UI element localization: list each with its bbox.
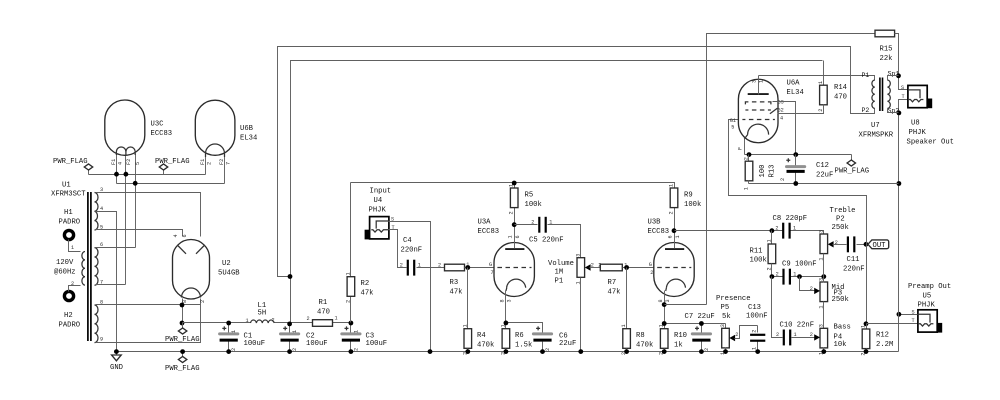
wire U6B F1 stub [205, 157, 207, 175]
svg-text:Volume: Volume [548, 260, 574, 268]
svg-text:U3C: U3C [151, 121, 165, 129]
svg-text:ECC83: ECC83 [151, 130, 173, 138]
svg-text:GND: GND [110, 364, 123, 372]
junction ground rail / R12 [864, 349, 869, 354]
svg-text:PWR_FLAG: PWR_FLAG [155, 158, 190, 166]
wire cathode return to ground vertical [749, 183, 899, 185]
capacitor C11 220nF [843, 236, 865, 273]
junction B+ / C1 [226, 321, 231, 326]
svg-text:G3: G3 [778, 100, 784, 106]
capacitor C2 100uF [281, 324, 328, 352]
svg-text:2: 2 [207, 162, 213, 165]
svg-text:R8: R8 [636, 332, 645, 340]
svg-text:EL34: EL34 [240, 135, 257, 143]
svg-text:8: 8 [500, 299, 506, 302]
svg-text:C13: C13 [748, 304, 761, 312]
svg-text:1: 1 [766, 239, 772, 242]
junction heater A / U3C pin4 [114, 172, 119, 177]
svg-text:T: T [912, 318, 915, 324]
svg-text:H2: H2 [64, 312, 73, 320]
svg-text:Presence: Presence [716, 295, 751, 303]
junction cathode / C6 branch [504, 321, 509, 326]
svg-text:PHJK: PHJK [918, 302, 936, 310]
svg-text:8: 8 [658, 299, 664, 302]
junction ground rail / PWR_FLAG [180, 349, 185, 354]
capacitor C9 100nF [776, 260, 817, 284]
tube U6A EL34 pentode [730, 76, 804, 155]
junction C7 top [699, 321, 704, 326]
junction R11 / C9 [770, 274, 775, 279]
svg-text:PWR_FLAG: PWR_FLAG [165, 336, 200, 344]
svg-text:1k: 1k [674, 342, 683, 350]
svg-text:@60Hz: @60Hz [54, 269, 76, 277]
svg-text:P1: P1 [862, 72, 870, 79]
svg-text:F2: F2 [219, 159, 225, 165]
junction screen loop / C2 vertical [288, 274, 293, 279]
svg-text:2: 2 [71, 281, 74, 287]
svg-text:1: 1 [861, 325, 867, 328]
svg-text:5: 5 [135, 162, 141, 165]
svg-text:T: T [392, 225, 395, 231]
svg-text:Treble: Treble [830, 207, 856, 215]
svg-text:Speaker Out: Speaker Out [907, 139, 954, 147]
svg-text:1: 1 [71, 245, 74, 251]
svg-text:7: 7 [491, 270, 494, 276]
junction P2 bottom / P3 top [821, 274, 826, 279]
svg-text:250k: 250k [832, 296, 849, 304]
wire U3C pin9 stub down to xfmr pin7 [125, 155, 127, 285]
svg-text:R12: R12 [876, 332, 889, 340]
junction ground rail / P5 [723, 349, 728, 354]
primary winding [82, 252, 85, 286]
wire G3 to cathode node [773, 102, 796, 155]
svg-text:8: 8 [182, 300, 188, 303]
svg-text:C12: C12 [816, 162, 829, 170]
svg-text:R3: R3 [450, 279, 459, 287]
svg-text:2: 2 [354, 348, 360, 351]
wire U6B F2 stub [224, 157, 226, 184]
svg-text:3: 3 [665, 299, 671, 302]
svg-text:U6A: U6A [787, 80, 801, 88]
resistor R2 47k [346, 183, 374, 323]
resistor R10 1k [659, 305, 687, 356]
svg-text:470: 470 [834, 94, 847, 102]
svg-text:2: 2 [231, 348, 237, 351]
wire heater net A [89, 174, 206, 176]
power flag PWR_FLAG (heater left) [53, 158, 93, 175]
svg-text:3: 3 [752, 80, 758, 83]
svg-text:100k: 100k [750, 257, 767, 265]
junction cathode row / C12 / G3 [793, 152, 798, 157]
grid G2 diagonal pin [770, 108, 777, 114]
capacitor C5 220nF [529, 217, 564, 245]
pad H1 PADRO [59, 209, 81, 252]
svg-text:Bass: Bass [834, 324, 851, 332]
junction cathode row / R13 [747, 152, 752, 157]
wire U3C pin4 stub [116, 155, 118, 184]
resistor R15 22k [875, 30, 895, 63]
svg-text:R15: R15 [880, 46, 893, 54]
core [879, 78, 881, 112]
svg-text:1: 1 [231, 330, 237, 333]
svg-text:PWR_FLAG: PWR_FLAG [53, 158, 88, 166]
svg-text:G2: G2 [778, 108, 784, 114]
svg-text:C5 220nF: C5 220nF [529, 237, 564, 245]
tube U6B EL34 heater [195, 100, 257, 165]
svg-text:4: 4 [780, 115, 783, 121]
plate [665, 248, 684, 250]
svg-text:EL34: EL34 [787, 89, 804, 97]
svg-text:100nF: 100nF [746, 313, 768, 321]
wire U6A plate to U7 P1 [759, 76, 875, 81]
svg-text:220nF: 220nF [843, 266, 865, 274]
junction C8 / R11 [770, 228, 775, 233]
connector U4 PHJK input jack [365, 188, 395, 240]
wire U8 tip to ground [899, 100, 908, 352]
svg-text:2: 2 [744, 157, 750, 160]
resistor R1 470 [307, 299, 338, 326]
svg-text:120V: 120V [56, 259, 74, 267]
svg-text:2: 2 [810, 332, 813, 338]
wire B+ main rail [183, 322, 351, 324]
svg-text:P2: P2 [862, 107, 870, 114]
Sp2 wire [888, 109, 899, 113]
wire U3C pin5 stub down to xfmr pin6 [135, 155, 137, 248]
wire xfmr pin4 CT to ground [96, 212, 117, 352]
capacitor C1 100uF [220, 323, 265, 352]
svg-text:22uF: 22uF [559, 340, 576, 348]
svg-text:22uF: 22uF [816, 172, 833, 180]
svg-text:2: 2 [704, 348, 710, 351]
svg-text:1.5k: 1.5k [515, 342, 532, 350]
svg-text:220nF: 220nF [401, 247, 423, 255]
svg-text:470: 470 [317, 309, 330, 317]
svg-text:3: 3 [507, 299, 513, 302]
svg-text:C8 220pF: C8 220pF [773, 215, 808, 223]
resistor R5 100k [509, 183, 542, 225]
svg-text:PHJK: PHJK [909, 129, 927, 137]
potentiometer P2 Treble 250k [818, 207, 855, 277]
svg-text:4: 4 [118, 162, 124, 165]
svg-text:2.2M: 2.2M [876, 341, 893, 349]
svg-text:C9 100nF: C9 100nF [782, 260, 817, 268]
junction B+ / C2 [287, 322, 292, 327]
wire U3B plate to C8 and P2 [675, 231, 824, 235]
transformer U7 XFRMSPKR [859, 71, 900, 140]
svg-text:2: 2 [766, 267, 772, 270]
potentiometer P1 Volume 1M [548, 254, 594, 352]
svg-text:1: 1 [818, 305, 824, 308]
wire cathode branch to C7/P5 [665, 323, 726, 325]
secondary winding 3-5 [95, 193, 99, 231]
svg-text:C7 22uF: C7 22uF [685, 313, 715, 321]
core [87, 192, 89, 341]
svg-text:Preamp Out: Preamp Out [908, 283, 951, 291]
svg-text:P5: P5 [721, 304, 730, 312]
svg-text:C4: C4 [403, 237, 412, 245]
svg-text:3: 3 [575, 254, 581, 257]
svg-text:U2: U2 [222, 260, 231, 268]
junction R3 / R4 / grid [465, 265, 470, 270]
junction ground rail / P1 [578, 349, 583, 354]
svg-text:ECC83: ECC83 [478, 228, 500, 236]
ground rail wire [117, 351, 899, 353]
power flag PWR_FLAG (heater mid) [155, 158, 190, 175]
resistor R14 470 [778, 61, 847, 114]
svg-text:S: S [901, 85, 904, 91]
junction R7 / R8 / grid U3B [624, 265, 629, 270]
svg-text:1: 1 [508, 235, 514, 238]
junction B+ / C3 / R2 [349, 321, 354, 326]
svg-text:1: 1 [793, 271, 796, 277]
resistor R6 1.5k [500, 303, 532, 356]
wire C4 to R3 [417, 267, 445, 269]
svg-text:P2: P2 [836, 216, 845, 224]
svg-text:22k: 22k [880, 55, 893, 63]
cathode [506, 279, 526, 291]
svg-text:1: 1 [669, 184, 675, 187]
junction ground rail / R10 [662, 349, 667, 354]
secondary winding 8-9 [95, 305, 99, 343]
wire U2 filament left to B+ takeoff [182, 299, 184, 323]
transformer U1 XFRM3SCT [51, 182, 103, 343]
capacitor C4 220nF [400, 237, 422, 276]
svg-text:2: 2 [650, 270, 653, 276]
svg-text:PWR_FLAG: PWR_FLAG [165, 365, 200, 373]
grid dashes [497, 267, 531, 269]
grid G3 dashes [745, 102, 771, 105]
svg-text:100uF: 100uF [306, 340, 328, 348]
svg-text:100k: 100k [684, 201, 701, 209]
svg-text:P1: P1 [555, 278, 564, 286]
svg-text:470k: 470k [636, 342, 653, 350]
svg-text:47k: 47k [608, 289, 621, 297]
resistor R3 47k [438, 262, 469, 297]
svg-text:100uF: 100uF [244, 340, 266, 348]
junction OUT node [864, 242, 869, 247]
wire R3 to U3A grid [465, 267, 497, 269]
svg-text:1: 1 [292, 330, 298, 333]
svg-text:2: 2 [780, 178, 786, 181]
svg-text:U3A: U3A [478, 219, 492, 227]
junction ground rail / GND [114, 349, 119, 354]
svg-text:2: 2 [598, 262, 601, 268]
svg-text:T: T [902, 94, 905, 100]
svg-text:XFRM3SCT: XFRM3SCT [51, 191, 86, 199]
cathode [666, 279, 686, 291]
wire xfmr pin8 to U2 filament [96, 304, 201, 306]
wire plate to C5 [515, 224, 538, 226]
svg-text:PADRO: PADRO [59, 219, 81, 227]
wire P1 wiper to R7 [590, 267, 601, 269]
svg-text:2: 2 [509, 211, 515, 214]
svg-text:10k: 10k [834, 341, 847, 349]
svg-text:1: 1 [354, 330, 360, 333]
secondary winding 6-7 [95, 248, 99, 286]
svg-text:100uF: 100uF [366, 340, 388, 348]
junction OUT vertical / R12 [864, 321, 869, 326]
junction ground rail / C1 [226, 349, 231, 354]
junction heater A / U3C pin9 [124, 172, 129, 177]
primary coil [872, 80, 875, 108]
capacitor C6 22uF [533, 326, 576, 351]
capacitor C13 100nF [746, 304, 768, 352]
potentiometer P4 Bass 10k [814, 324, 851, 356]
svg-text:1: 1 [462, 324, 468, 327]
net label OUT [868, 240, 889, 250]
svg-text:2: 2 [752, 330, 758, 333]
svg-text:2: 2 [735, 332, 738, 338]
svg-text:1: 1 [793, 225, 796, 231]
grid G1 dashes [742, 119, 775, 121]
plate [505, 248, 524, 250]
svg-text:PHJK: PHJK [369, 207, 387, 215]
resistor R11 100k [750, 231, 776, 277]
svg-text:2: 2 [775, 225, 778, 231]
svg-text:1: 1 [675, 235, 681, 238]
svg-text:H1: H1 [64, 209, 73, 217]
svg-text:6: 6 [515, 235, 521, 238]
tube U3A ECC83 triode [478, 219, 535, 303]
svg-text:100k: 100k [525, 201, 542, 209]
power flag PWR_FLAG (B+) [165, 323, 200, 345]
svg-text:2: 2 [438, 262, 441, 268]
svg-text:2: 2 [307, 316, 310, 322]
svg-text:XFRMSPKR: XFRMSPKR [859, 132, 894, 140]
svg-text:2: 2 [776, 332, 779, 338]
svg-text:1: 1 [346, 272, 352, 275]
resistor R4 470k [462, 324, 494, 355]
svg-text:2: 2 [835, 240, 838, 246]
capacitor C3 100uF [342, 323, 387, 352]
svg-text:F1: F1 [200, 159, 206, 165]
wire R7 to U3B grid [623, 267, 657, 269]
svg-text:2: 2 [200, 300, 206, 303]
resistor R12 2.2M [861, 324, 894, 356]
svg-text:2: 2 [669, 211, 675, 214]
svg-text:3: 3 [720, 324, 726, 327]
anode left [177, 245, 186, 254]
svg-text:U6B: U6B [240, 125, 254, 133]
junction ground rail / C7 [699, 349, 704, 354]
svg-text:F: F [738, 147, 744, 150]
ground symbol GND [110, 352, 123, 373]
wire NFB cathode to R15 [707, 34, 875, 305]
wire C5 to volume P1 [548, 225, 581, 258]
power flag PWR_FLAG (EL34 cathode) [835, 155, 870, 176]
junction preamp rail / R5 [512, 181, 517, 186]
junction Sp2 / ground [897, 111, 902, 116]
svg-text:U8: U8 [911, 120, 920, 128]
junction ground rail / C13 [755, 349, 760, 354]
junction heater B / U3C pin5 [133, 181, 138, 186]
svg-text:ECC83: ECC83 [648, 228, 670, 236]
svg-text:47k: 47k [450, 289, 463, 297]
svg-text:2: 2 [545, 348, 551, 351]
resistor R13 100 [744, 155, 777, 191]
svg-text:1: 1 [621, 324, 627, 327]
wire grid node down to R4 [467, 268, 469, 329]
wire xfmr pin9 to U2 filament right [96, 299, 201, 343]
wire P2 wiper to C11 [833, 244, 847, 246]
wire U4 tip to C4 [389, 230, 407, 268]
junction U2 fil-left / pin8 [180, 303, 185, 308]
junction ground rail / C2 [287, 349, 292, 354]
cathode [744, 124, 768, 139]
tube U2 5U4GB rectifier [173, 234, 241, 303]
svg-text:3: 3 [818, 324, 824, 327]
svg-text:Sp1: Sp1 [888, 71, 900, 78]
svg-text:3: 3 [818, 230, 824, 233]
junction ground vertical / U5 sleeve [897, 312, 902, 317]
grid dashes [657, 267, 691, 269]
svg-text:R7: R7 [608, 279, 617, 287]
svg-text:2: 2 [272, 318, 275, 324]
capacitor C7 22uF [685, 313, 715, 352]
svg-text:R14: R14 [834, 84, 847, 92]
junction U3B cathode [662, 302, 667, 307]
svg-text:2: 2 [346, 300, 352, 303]
svg-text:1: 1 [818, 257, 824, 260]
connector U8 PHJK speaker out jack [901, 85, 954, 147]
wire U3B cathode to NFB corner [665, 304, 707, 306]
Sp1 wire [888, 76, 899, 81]
wire xfmr pin7 [96, 284, 126, 286]
connector U5 PHJK preamp out jack [908, 283, 951, 333]
junction C12 bottom [793, 181, 798, 186]
svg-text:R13: R13 [769, 165, 777, 178]
tube U3B ECC83 triode [648, 219, 695, 305]
svg-text:F2: F2 [126, 159, 132, 165]
potentiometer P5 Presence 5k [716, 295, 758, 355]
svg-text:100: 100 [759, 165, 767, 178]
junction U3B plate / C8 wire [672, 228, 677, 233]
svg-text:1: 1 [575, 281, 581, 284]
junction ground rail / R6 [504, 349, 509, 354]
svg-text:Sp2: Sp2 [888, 108, 900, 115]
svg-text:5H: 5H [258, 310, 267, 318]
svg-text:R6: R6 [515, 332, 524, 340]
capacitor C8 220pF [773, 215, 808, 239]
junction ground rail / U4 sleeve [428, 349, 433, 354]
svg-text:5: 5 [731, 125, 734, 131]
svg-text:2: 2 [776, 271, 779, 277]
wire cathode row [745, 154, 852, 156]
wire xfmr pin3 to U2 right anode [96, 193, 201, 237]
svg-text:2: 2 [400, 262, 403, 268]
svg-text:R2: R2 [361, 280, 370, 288]
inductor L1 5H [246, 302, 275, 324]
svg-text:F1: F1 [111, 159, 117, 165]
junction ground rail / P4 [821, 349, 826, 354]
svg-text:5U4GB: 5U4GB [218, 270, 240, 278]
wire R15 to Sp1 [895, 34, 908, 90]
svg-text:G: G [489, 262, 492, 268]
svg-text:U3B: U3B [648, 219, 662, 227]
wire preamp B+ rail [351, 183, 675, 189]
filament arc [182, 288, 201, 298]
wire OUT node to U5 tip [867, 323, 918, 325]
junction ground rail / R8 [624, 349, 629, 354]
svg-text:C11: C11 [847, 256, 860, 264]
svg-text:C10 22nF: C10 22nF [780, 321, 815, 329]
svg-text:7: 7 [226, 162, 232, 165]
wire C10 row [772, 277, 816, 338]
wire screen feed (R14 top to C2 node) [291, 61, 823, 324]
wire heater net B [117, 183, 225, 185]
resistor R7 47k [598, 262, 627, 296]
tube U3C ECC83 heater [105, 100, 172, 165]
